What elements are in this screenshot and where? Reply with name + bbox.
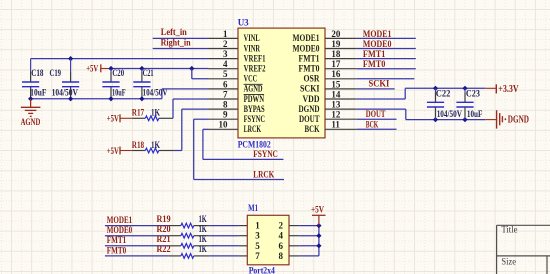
svg-text:R17: R17 <box>132 108 145 118</box>
net label DOUT <box>366 109 386 119</box>
wire M1 pin 4 to +5V bus <box>299 235 319 237</box>
svg-text:FMT0: FMT0 <box>363 59 386 69</box>
net label FSYNC <box>253 149 278 159</box>
svg-text:4: 4 <box>223 59 228 69</box>
svg-text:104/50V: 104/50V <box>437 109 463 119</box>
power +3.3V <box>485 84 519 95</box>
svg-text:5: 5 <box>255 241 260 251</box>
wire M1 pin 6 to +5V bus <box>299 245 319 247</box>
svg-text:+3.3V: +3.3V <box>498 84 519 95</box>
wire M1 pin 2 to +5V bus <box>299 225 319 227</box>
svg-text:1K: 1K <box>199 214 207 224</box>
svg-text:PDWN: PDWN <box>244 94 265 104</box>
pin 10 (LRCK) of U3 <box>209 120 262 134</box>
svg-text:FSYNC: FSYNC <box>253 149 278 159</box>
capacitor C22 <box>427 88 463 119</box>
svg-text:BYPAS: BYPAS <box>244 104 265 114</box>
pin 6 (AGND) of U3 <box>209 79 263 93</box>
svg-text:C21: C21 <box>143 68 154 78</box>
node C23 top junction <box>462 86 467 91</box>
pin 20 (MODE1) of U3 <box>293 29 357 43</box>
svg-text:6: 6 <box>223 79 228 89</box>
pin 15 (SCKI) of U3 <box>300 79 357 93</box>
svg-text:9: 9 <box>223 110 228 120</box>
net label BCK <box>366 119 379 129</box>
node C18 bottom junction <box>28 96 33 101</box>
net label LRCK <box>253 169 274 179</box>
svg-text:C20: C20 <box>112 68 124 78</box>
svg-text:LRCK: LRCK <box>244 124 262 134</box>
svg-text:DOUT: DOUT <box>299 114 320 124</box>
title block label Size <box>501 256 516 266</box>
node +5V bus junction row 3 <box>316 243 321 248</box>
svg-text:DGND: DGND <box>299 104 320 114</box>
wire FMT0 from pin 17 <box>357 68 416 70</box>
svg-text:FSYNC: FSYNC <box>244 114 266 124</box>
pin 19 (MODE0) of U3 <box>293 39 357 53</box>
svg-text:SCKI: SCKI <box>300 84 320 94</box>
wire SCKI from pin 15 <box>357 88 395 90</box>
wire BCK from pin 11 <box>357 128 397 130</box>
svg-text:MODE1: MODE1 <box>363 29 392 39</box>
svg-text:MODE0: MODE0 <box>363 39 392 49</box>
wire Left_in to pin 1 <box>153 37 209 39</box>
svg-text:Left_in: Left_in <box>161 27 187 37</box>
net label FMT0 (right) <box>363 59 386 69</box>
svg-text:C19: C19 <box>50 68 62 78</box>
wire R18 to pin 8 (BYPAS) <box>174 109 209 150</box>
node +5V bus junction row 1 <box>316 223 321 228</box>
net label FMT1 (bottom) <box>107 235 127 245</box>
node C21 bottom junction <box>139 96 144 101</box>
node C23 bottom junction <box>462 117 467 122</box>
svg-text:OSR: OSR <box>304 74 320 84</box>
op IC U3 body (PCM1802) <box>238 28 325 138</box>
node C22 top junction <box>433 86 438 91</box>
wire pin 9 (FSYNC pin) to LRCK net <box>194 119 284 179</box>
svg-text:4: 4 <box>278 231 283 241</box>
svg-text:DGND: DGND <box>508 114 529 125</box>
wire +5V vertical bus (M1) <box>318 226 320 256</box>
node C21 top junction <box>139 66 144 71</box>
svg-text:Right_in: Right_in <box>161 37 191 47</box>
svg-text:PCM1802: PCM1802 <box>238 139 271 149</box>
node C19 top junction <box>68 56 73 61</box>
svg-text:+5V: +5V <box>107 115 119 125</box>
power DGND <box>485 110 529 128</box>
designator M1 <box>248 203 258 213</box>
svg-text:8: 8 <box>223 100 228 110</box>
svg-text:C23: C23 <box>466 89 480 99</box>
svg-text:20: 20 <box>331 29 341 39</box>
svg-text:10uF: 10uF <box>112 87 126 97</box>
svg-text:19: 19 <box>331 39 341 49</box>
svg-text:DOUT: DOUT <box>366 109 386 119</box>
pin 4 (VREF2) of U3 <box>209 59 266 73</box>
resistor R18 <box>132 140 174 153</box>
svg-text:14: 14 <box>331 89 341 99</box>
pin 18 (FMT1) of U3 <box>299 49 357 63</box>
svg-text:VDD: VDD <box>303 94 320 104</box>
svg-text:7: 7 <box>255 251 260 261</box>
comment Port2x4 <box>249 266 276 274</box>
wire DOUT from pin 12 <box>357 118 397 120</box>
wire FMT1 from pin 18 <box>357 58 416 60</box>
wire MODE0 from pin 19 <box>357 48 416 50</box>
svg-text:1: 1 <box>255 221 260 231</box>
svg-text:13: 13 <box>331 100 341 110</box>
pin 8 of M1 <box>278 251 299 261</box>
svg-text:+5V: +5V <box>86 65 98 75</box>
resistor R20 <box>157 224 210 238</box>
pin 16 (OSR) of U3 <box>304 69 357 83</box>
svg-text:BCK: BCK <box>305 124 320 134</box>
pin 7 of M1 <box>239 251 261 261</box>
wire M1 pin 8 to +5V bus <box>299 255 319 257</box>
svg-text:R19: R19 <box>157 214 172 224</box>
svg-text:R22: R22 <box>157 244 172 254</box>
svg-text:AGND: AGND <box>244 84 263 94</box>
ground AGND <box>21 99 41 128</box>
wire from pin 16 (OSR) <box>357 78 415 80</box>
node VCC branch junction <box>189 66 194 71</box>
svg-text:U3: U3 <box>238 18 249 28</box>
wire pin 10 (LRCK pin) to FSYNC net <box>203 129 284 159</box>
svg-text:VREF2: VREF2 <box>244 64 266 74</box>
svg-text:10: 10 <box>219 120 229 130</box>
pin 14 (VDD) of U3 <box>303 89 357 103</box>
svg-text:FMT1: FMT1 <box>363 49 386 59</box>
wire bus to pin 6 (AGND) <box>162 89 209 99</box>
svg-text:VINL: VINL <box>244 33 260 43</box>
wire R21 to M1 pin 5 <box>209 245 238 247</box>
resistor R22 <box>157 244 210 258</box>
svg-text:MODE1: MODE1 <box>107 215 133 225</box>
capacitor C20 <box>102 68 126 99</box>
svg-text:Title: Title <box>501 225 517 235</box>
power +5V (near C20) <box>86 64 111 74</box>
pin 7 (PDWN) of U3 <box>209 89 265 103</box>
net label Right_in <box>161 37 191 47</box>
wire FMT0 to R22 <box>105 255 169 257</box>
svg-text:10uF: 10uF <box>30 87 47 97</box>
svg-text:1K: 1K <box>151 108 160 118</box>
svg-text:10uF: 10uF <box>467 109 483 119</box>
node C20 top junction <box>108 66 113 71</box>
wire VREF1 bus (C18/C19 tops to pin 3) <box>31 58 209 60</box>
title block frame <box>497 225 550 274</box>
svg-text:BCK: BCK <box>366 119 379 129</box>
wire DGND (pin 13) to DGND bus <box>357 109 485 120</box>
comment PCM1802 <box>238 139 271 149</box>
svg-text:2: 2 <box>223 39 228 49</box>
net label SCKI <box>369 79 390 89</box>
connector M1 body (Port2x4) <box>247 215 289 264</box>
wire R20 to M1 pin 3 <box>209 235 238 237</box>
pin 9 (FSYNC) of U3 <box>209 110 266 124</box>
designator U3 <box>238 18 249 28</box>
svg-text:3: 3 <box>255 231 260 241</box>
svg-text:VCC: VCC <box>244 74 258 84</box>
svg-text:M1: M1 <box>248 203 258 213</box>
svg-text:VREF1: VREF1 <box>244 53 266 63</box>
svg-text:11: 11 <box>331 120 340 130</box>
node C22 bottom junction <box>433 117 438 122</box>
svg-text:SCKI: SCKI <box>369 79 390 89</box>
resistor R21 <box>157 234 210 248</box>
pin 11 (BCK) of U3 <box>305 120 357 134</box>
wire branch to pin 5 (VCC) <box>192 69 209 79</box>
svg-text:FMT1: FMT1 <box>107 235 127 245</box>
svg-text:1K: 1K <box>199 224 207 234</box>
node +5V bus junction row 2 <box>316 233 321 238</box>
pin 1 (VINL) of U3 <box>209 29 260 43</box>
svg-text:2: 2 <box>278 221 283 231</box>
wire MODE1 to R19 <box>105 225 169 227</box>
resistor R17 <box>132 108 173 121</box>
svg-text:12: 12 <box>331 110 341 120</box>
net label FMT0 (bottom) <box>107 245 127 255</box>
capacitor C19 <box>50 59 80 99</box>
net label FMT1 (right) <box>363 49 386 59</box>
net label MODE0 (right) <box>363 39 392 49</box>
capacitor C21 <box>133 68 168 99</box>
resistor R19 <box>157 214 210 228</box>
svg-text:8: 8 <box>278 251 283 261</box>
wire +5V to pin 4 (VREF2) <box>111 68 209 70</box>
wire VDD (pin 14) to +3.3V bus <box>357 88 485 99</box>
svg-text:R20: R20 <box>157 224 172 234</box>
wire Right_in to pin 2 <box>153 48 209 50</box>
svg-text:7: 7 <box>223 89 228 99</box>
pin 3 (VREF1) of U3 <box>209 49 266 63</box>
svg-text:C22: C22 <box>436 89 451 99</box>
svg-text:104/50V: 104/50V <box>52 87 79 97</box>
title block label A4 (clipped) <box>504 273 516 274</box>
pin 2 of M1 <box>278 221 299 231</box>
svg-text:17: 17 <box>331 59 341 69</box>
power +5V (R18) <box>107 147 132 157</box>
svg-text:1K: 1K <box>151 140 160 150</box>
wire MODE0 to R20 <box>105 235 169 237</box>
pin 5 of M1 <box>239 241 261 251</box>
svg-text:AGND: AGND <box>21 118 41 128</box>
pin 3 of M1 <box>239 231 261 241</box>
svg-text:VINR: VINR <box>244 43 261 53</box>
svg-text:1K: 1K <box>199 234 207 244</box>
wire AGND bus (cap bottoms) <box>31 98 162 100</box>
svg-text:LRCK: LRCK <box>253 169 274 179</box>
power +5V (M1) <box>311 206 326 226</box>
capacitor C23 <box>456 88 482 119</box>
svg-text:6: 6 <box>278 241 283 251</box>
net label MODE1 (bottom) <box>107 215 133 225</box>
svg-text:FMT0: FMT0 <box>299 64 320 74</box>
svg-text:Size: Size <box>501 256 516 266</box>
pin 8 (BYPAS) of U3 <box>209 100 265 114</box>
svg-text:R18: R18 <box>132 140 145 150</box>
svg-text:16: 16 <box>331 69 341 79</box>
node C20 bottom junction <box>108 96 113 101</box>
wire R22 to M1 pin 7 <box>209 255 238 257</box>
svg-text:18: 18 <box>331 49 341 59</box>
net label Left_in <box>161 27 187 37</box>
svg-text:15: 15 <box>331 79 341 89</box>
power +5V (R17) <box>107 114 132 124</box>
svg-text:1K: 1K <box>199 244 207 254</box>
wire MODE1 from pin 20 <box>357 37 416 39</box>
svg-text:FMT1: FMT1 <box>299 53 320 63</box>
net label MODE0 (bottom) <box>107 225 133 235</box>
svg-text:FMT0: FMT0 <box>107 245 127 255</box>
title block label Title <box>501 225 517 235</box>
svg-text:MODE1: MODE1 <box>293 33 320 43</box>
pin 5 (VCC) of U3 <box>209 69 258 83</box>
pin 1 of M1 <box>239 221 261 231</box>
wire FMT1 to R21 <box>105 245 169 247</box>
svg-text:+5V: +5V <box>107 147 119 157</box>
wire R17 to pin 7 (PDWN) <box>173 99 209 118</box>
pin 13 (DGND) of U3 <box>299 100 357 114</box>
svg-text:R21: R21 <box>157 234 172 244</box>
svg-text:MODE0: MODE0 <box>293 43 320 53</box>
svg-text:Port2x4: Port2x4 <box>249 266 276 274</box>
pin 2 (VINR) of U3 <box>209 39 261 53</box>
svg-text:5: 5 <box>223 69 228 79</box>
pin 6 of M1 <box>278 241 299 251</box>
svg-text:MODE0: MODE0 <box>107 225 133 235</box>
pin 12 (DOUT) of U3 <box>299 110 357 124</box>
wire R19 to M1 pin 1 <box>209 225 238 227</box>
net label MODE1 (right) <box>363 29 392 39</box>
pin 17 (FMT0) of U3 <box>299 59 357 73</box>
svg-text:C18: C18 <box>31 68 44 78</box>
svg-text:+5V: +5V <box>311 206 324 216</box>
pin 4 of M1 <box>278 231 299 241</box>
node C19 bottom junction <box>68 96 73 101</box>
svg-text:3: 3 <box>223 49 228 59</box>
svg-text:1: 1 <box>223 29 228 39</box>
capacitor C18 <box>22 59 47 99</box>
